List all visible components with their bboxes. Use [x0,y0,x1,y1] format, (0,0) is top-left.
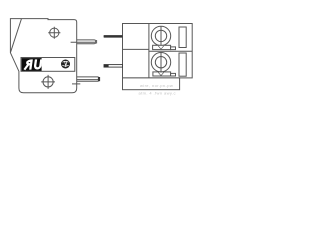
pin 2 (side view, three rails, dark tip) [72,77,100,84]
clamp plate 1 [153,45,171,49]
slot opening 2 [179,53,186,76]
pin 1 (front view, solid) [104,35,123,38]
label band [21,58,75,72]
right view main body rect [123,24,193,78]
right view vertical divider [148,24,150,78]
lower skirt [123,78,180,90]
screw 1 inner circle [155,30,166,41]
left section divider [123,48,149,50]
faint watermark text row 1 [139,83,176,95]
screw 1 front: outer circle [151,26,170,45]
screw 2 inner circle [155,57,166,68]
clamp 1 dimple [158,46,164,49]
slot opening 1 [179,27,186,48]
screw crosshair 1 (side view) [48,27,60,39]
screw 1 slot line [160,26,162,45]
svg-text:wire, nor.pn-pw: wire, nor.pn-pw [140,83,173,88]
screw 2 slot line [160,53,162,72]
left view body outline [10,19,76,93]
wire funnel interior diagonal [10,19,21,53]
pin 2 (front view, outlined with dark tip) [104,64,123,67]
clamp plate 2 [153,72,171,76]
screw 2 front: outer circle [151,53,170,72]
clamp 2 step [171,73,176,76]
svg-text:atm. 4 .fwn awy.c: atm. 4 .fwn awy.c [139,91,176,96]
CSA mark circle [61,60,70,69]
clamp 2 dimple [158,72,164,75]
UL recognized mark (black box, white mirrored-R U) [22,58,42,71]
pin 1 (side view, three rails) [71,40,98,44]
right section divider [149,50,192,52]
clamp 1 step [171,47,176,50]
screw crosshair 2 (side view) [41,75,55,89]
